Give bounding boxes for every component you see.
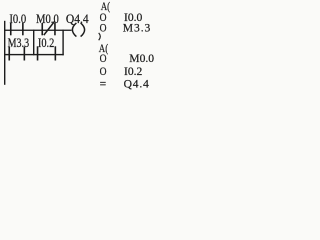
- svg-text:M0.0: M0.0: [129, 52, 154, 65]
- coil Q4.4: [72, 23, 84, 37]
- STL line 3: O M3.3: [100, 22, 152, 35]
- svg-text:I0.0: I0.0: [9, 12, 26, 26]
- contact I0.2 (NO, parallel branch): [37, 46, 56, 60]
- contact I0.0 (NO): [10, 23, 24, 35]
- svg-text:I0.2: I0.2: [38, 36, 54, 50]
- contact M0.0 (NC with slash): [41, 21, 55, 35]
- svg-text:M3.3: M3.3: [8, 36, 30, 50]
- svg-text:O: O: [100, 65, 107, 78]
- wire junction node B (rejoin before coil): [62, 30, 63, 56]
- svg-text:Q4.4: Q4.4: [124, 78, 150, 91]
- STL line 4: ): [99, 33, 101, 40]
- wire bottom rung: [4, 54, 64, 55]
- svg-text:O: O: [100, 52, 107, 65]
- svg-text:I0.2: I0.2: [124, 65, 143, 78]
- contact M3.3 (NO, parallel branch): [8, 47, 25, 61]
- STL line 2: O I0.0: [100, 11, 143, 24]
- STL line 8: = Q4.4: [100, 78, 150, 91]
- wire top rung: [4, 30, 72, 31]
- STL line 6: O M0.0: [100, 52, 155, 65]
- wire junction node A (between parallel groups 1 and 2): [33, 30, 34, 56]
- svg-text:=: =: [100, 78, 107, 91]
- svg-text:O: O: [100, 22, 107, 35]
- svg-text:M3.3: M3.3: [123, 22, 151, 35]
- svg-text:Q4.4: Q4.4: [66, 12, 89, 26]
- svg-text:M0.0: M0.0: [36, 12, 59, 26]
- left power rail: [4, 21, 5, 85]
- STL line 7: O I0.2: [100, 65, 143, 78]
